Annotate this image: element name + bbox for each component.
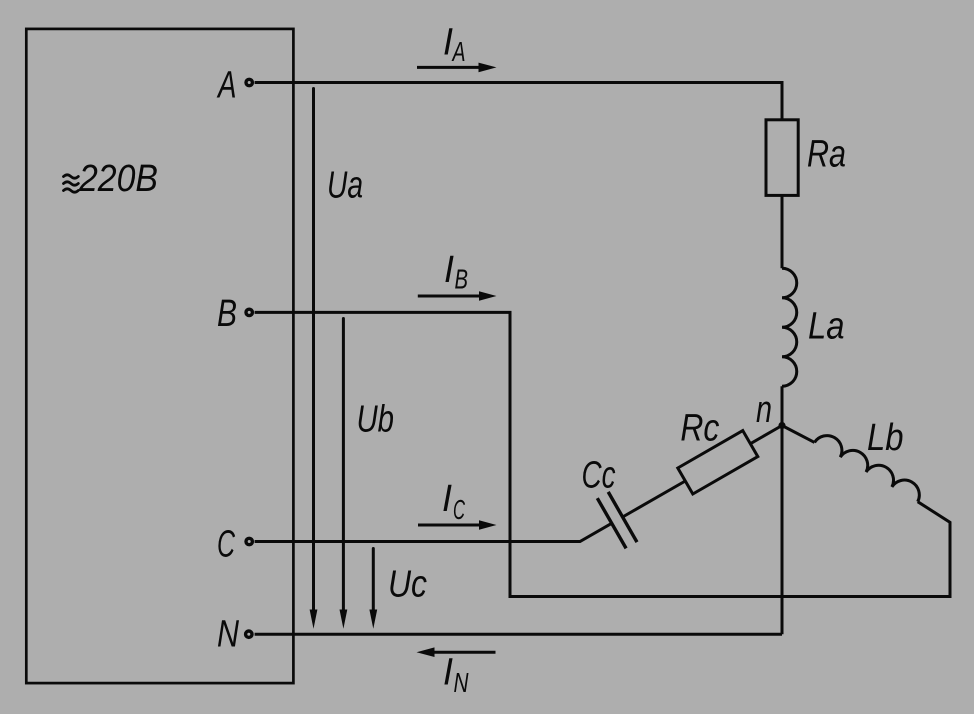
- svg-text:220B: 220B: [78, 158, 158, 200]
- svg-text:Cc: Cc: [582, 455, 616, 497]
- svg-text:La: La: [808, 306, 845, 348]
- svg-text:B: B: [217, 293, 237, 335]
- svg-text:A: A: [451, 36, 465, 67]
- svg-text:Ua: Ua: [327, 165, 363, 207]
- svg-text:I: I: [444, 249, 454, 291]
- svg-text:C: C: [453, 494, 465, 525]
- svg-text:Ub: Ub: [357, 398, 395, 440]
- svg-text:n: n: [756, 389, 772, 431]
- svg-text:C: C: [217, 524, 235, 566]
- svg-text:N: N: [217, 614, 239, 656]
- svg-text:Lb: Lb: [867, 417, 904, 459]
- svg-text:B: B: [455, 264, 469, 295]
- svg-text:N: N: [454, 667, 470, 698]
- svg-text:Rc: Rc: [680, 407, 719, 449]
- svg-text:Uc: Uc: [388, 563, 427, 605]
- svg-text:Ra: Ra: [807, 133, 846, 175]
- svg-text:I: I: [442, 478, 452, 520]
- svg-text:A: A: [217, 64, 237, 106]
- svg-text:I: I: [443, 651, 453, 693]
